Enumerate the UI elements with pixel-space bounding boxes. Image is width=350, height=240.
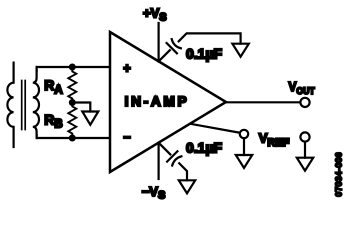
ground (divider midpoint) bbox=[82, 112, 98, 125]
svg-text:07034-006: 07034-006 bbox=[335, 152, 344, 197]
wire -VS supply bbox=[158, 143, 160, 179]
capacitor C2 curved plate bbox=[172, 156, 181, 165]
node top junction dot bbox=[69, 64, 76, 71]
terminal VREF circle bbox=[240, 130, 248, 138]
svg-text:RA: RA bbox=[44, 77, 62, 96]
wire secondary-top to +input bbox=[37, 66, 110, 68]
capacitor C1 wire lower bbox=[159, 50, 170, 61]
wire middle node to ground bbox=[72, 103, 90, 112]
terminal VOUT circle bbox=[300, 98, 309, 107]
svg-text:RB: RB bbox=[44, 111, 62, 130]
resistor RA bbox=[68, 67, 76, 103]
capacitor C2 wire upper bbox=[159, 143, 171, 155]
svg-text:−: − bbox=[123, 130, 130, 144]
op-amp U1 IN-AMP triangle bbox=[110, 32, 226, 172]
svg-text:0.1µF: 0.1µF bbox=[186, 45, 223, 61]
svg-text:−VS: −VS bbox=[142, 184, 166, 202]
wire +VS supply bbox=[158, 23, 160, 61]
ground (top, for C1) bbox=[232, 44, 248, 57]
wire output bbox=[226, 101, 300, 103]
transformer T1 primary winding bbox=[7, 63, 13, 147]
svg-text:0.1µF: 0.1µF bbox=[186, 139, 223, 155]
wire secondary-bottom to -input bbox=[37, 137, 110, 139]
node bottom junction dot bbox=[69, 135, 76, 142]
wire secondary-top lead corner bbox=[35, 67, 37, 71]
transformer T1 core bbox=[22, 81, 26, 130]
terminal (return/ground) circle bbox=[300, 132, 309, 141]
wire secondary-bottom lead corner bbox=[35, 135, 37, 138]
svg-text:VREF: VREF bbox=[259, 131, 290, 149]
ground (bottom, for C2) bbox=[179, 180, 195, 193]
svg-text:VOUT: VOUT bbox=[289, 79, 316, 96]
capacitor C1 wire upper bbox=[179, 33, 241, 43]
capacitor C2 straight plate bbox=[167, 151, 177, 161]
ground (return terminal) bbox=[297, 158, 313, 171]
ground (VREF) bbox=[236, 155, 252, 168]
capacitor C1 straight plate bbox=[167, 43, 177, 53]
node middle junction dot bbox=[69, 99, 76, 106]
wire VREF to ground bbox=[243, 138, 245, 155]
resistor RB bbox=[68, 103, 76, 139]
capacitor C2 wire lower bbox=[179, 163, 187, 180]
svg-text:IN-AMP: IN-AMP bbox=[125, 94, 190, 109]
svg-text:+: + bbox=[123, 62, 130, 76]
wire REF pin to VREF terminal bbox=[191, 124, 240, 133]
wire return terminal to ground bbox=[304, 142, 306, 158]
transformer T1 secondary winding bbox=[33, 70, 39, 136]
svg-text:+VS: +VS bbox=[143, 6, 167, 24]
capacitor C1 curved plate bbox=[172, 39, 181, 48]
